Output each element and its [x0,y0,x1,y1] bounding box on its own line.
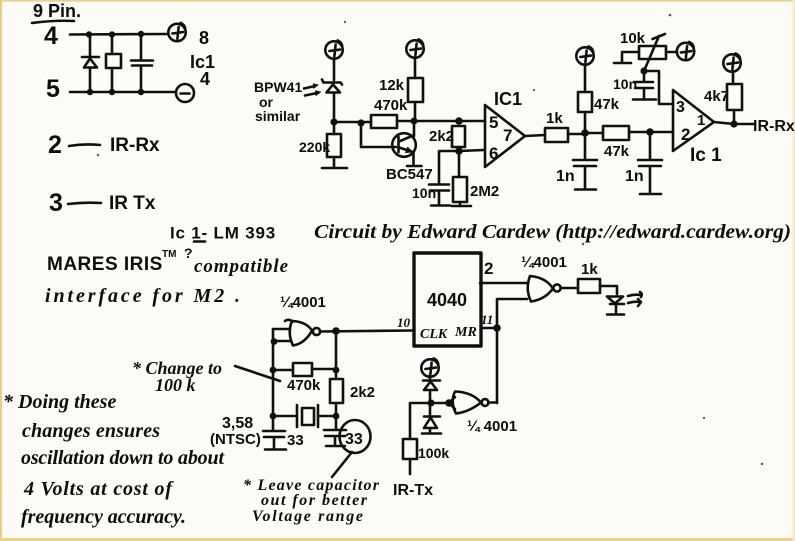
crystal X1 3.58MHz [270,405,340,427]
wire supply to photodiode [333,59,336,80]
wire output to node [714,122,734,124]
svg-text:2k2: 2k2 [429,128,454,145]
svg-text:compatible: compatible [194,256,289,277]
supply terminal plus (photodiode) [325,40,342,58]
node photodiode/220k [330,118,337,125]
svg-text:10: 10 [397,315,411,330]
supply terminal plus (Tx clamp) [421,358,438,376]
svg-text:4 Volts at cost of: 4 Volts at cost of [23,478,174,500]
wire Tx node left/down [410,403,431,439]
svg-text:oscillation down to about: oscillation down to about [21,447,225,469]
node output [730,120,737,127]
wire pin2 to NOR [480,282,528,285]
svg-text:4: 4 [200,69,210,89]
wire node to gate inputs [431,397,455,409]
svg-text:1n: 1n [556,168,575,185]
svg-text:(NTSC): (NTSC) [210,431,261,448]
resistor 470k osc [270,363,340,394]
title 9 Pin. [32,1,81,23]
terminal minus [176,84,194,102]
wire osc inputs [271,329,291,416]
wire gate to 1k [561,287,578,290]
svg-text:2k2: 2k2 [350,384,375,401]
resistor 1k LED [578,261,617,294]
wire threshold to pin3 [644,71,673,104]
wire node to base branch [334,121,361,124]
wire node to opamp pin6 [459,150,484,151]
svg-text:IR-Tx: IR-Tx [393,482,433,499]
node threshold [640,67,647,74]
wire node to 10n [439,151,459,183]
wire node down [335,331,338,379]
svg-text:Voltage range: Voltage range [252,508,363,525]
LED D4 IR [607,297,624,315]
node base branch [357,119,364,126]
terminal plus V+ [168,23,185,41]
wire MR pin11 [481,327,497,330]
svg-text:IC1: IC1 [494,89,522,109]
svg-text:6: 6 [489,144,498,163]
wire node to opamp pin5 [414,120,485,123]
svg-text:IR-Rx: IR-Rx [753,118,795,135]
label BPW41 or similar [254,79,302,124]
wire base from node [361,123,396,147]
wire MR down to Tx gate [496,328,499,403]
svg-text:IR Tx: IR Tx [109,193,156,214]
wire pin2 stub [69,144,100,146]
svg-text:2: 2 [484,259,493,278]
svg-text:IR-Rx: IR-Rx [110,135,160,156]
svg-text:MARES IRIS: MARES IRIS [47,254,163,275]
svg-text:¼4001: ¼4001 [521,254,567,271]
svg-text:similar: similar [255,108,301,124]
wire pot left to ground stub [614,52,639,63]
supply terminal plus (47k) [576,46,593,64]
svg-text:3,58: 3,58 [222,415,253,432]
svg-text:33: 33 [287,432,304,449]
svg-text:470k: 470k [287,377,321,394]
svg-text:100k: 100k [418,445,449,461]
resistor 220k [299,122,347,168]
node 2k2 bottom [455,147,463,155]
capacitor 10n threshold [613,71,656,100]
resistor 12k [379,58,423,121]
svg-text:Ic 1- LM 393: Ic 1- LM 393 [170,224,276,243]
svg-text:47k: 47k [594,96,620,113]
resistor 2k2 osc [330,379,375,416]
node 2k2 top [455,117,463,125]
wire pin3 stub [68,203,101,204]
capacitor C0 [131,34,153,92]
svg-text:¼ 4001: ¼ 4001 [467,418,517,435]
svg-text:3: 3 [49,189,63,217]
svg-text:100 k: 100 k [155,375,196,395]
label MARES IRIS TM compatible [47,245,289,277]
label 3,58 (NTSC) [210,415,261,448]
svg-text:BC547: BC547 [386,166,433,183]
note doing these changes [3,391,225,528]
svg-text:* Doing these: * Doing these [3,391,116,413]
node after 1k [581,129,589,137]
svg-text:frequency accuracy.: frequency accuracy. [21,506,186,528]
capacitor 1n first [556,133,597,190]
node MR [493,324,501,332]
svg-text:33: 33 [345,431,363,448]
annotation circle around 33 [340,420,371,453]
svg-text:470k: 470k [374,97,408,114]
svg-text:1n: 1n [625,168,644,185]
svg-text:9 Pin.: 9 Pin. [33,1,81,21]
svg-text:5: 5 [46,75,60,103]
svg-text:¼4001: ¼4001 [280,294,326,311]
svg-text:4: 4 [44,22,58,50]
svg-text:out for better: out for better [261,492,368,509]
svg-text:2M2: 2M2 [470,183,499,200]
svg-text:MR: MR [454,325,477,340]
paper specks [97,14,763,465]
capacitor 33 right [324,416,363,448]
svg-text:1k: 1k [581,261,598,278]
node osc output [332,327,340,335]
resistor 47k series [585,126,673,160]
note change to 100k [132,358,280,395]
svg-text:CLK: CLK [420,327,449,342]
wire collector to node [413,121,416,136]
capacitor 10n [412,185,450,206]
svg-text:2: 2 [48,131,62,159]
light arrows [304,83,322,96]
NOR gate U2a oscillator [285,320,320,346]
capacitor 33 left [263,416,304,450]
svg-text:changes ensures: changes ensures [22,420,160,442]
svg-text:1: 1 [697,112,705,129]
capacitor 1n second [625,132,662,194]
wire pin4 rail [70,33,168,36]
potentiometer 10k [620,30,666,71]
IC 4040 counter [414,253,481,346]
svg-text:220k: 220k [299,139,330,155]
wire opamp output [525,135,545,136]
svg-text:4k7: 4k7 [704,88,729,105]
svg-text:3: 3 [676,99,685,116]
resistor 2k2 [429,126,465,151]
op-amp U1a IC1 [485,89,525,167]
svg-text:Ic 1: Ic 1 [690,145,722,166]
wire pin5 rail [70,91,176,94]
label Ic 1- LM 393 [170,224,276,243]
resistor 470k (feedback) [361,97,414,128]
annotation leader to note [332,452,352,477]
svg-text:2: 2 [681,125,690,144]
supply terminal plus (4k7) [723,53,740,71]
op-amp U1b IC1 [673,90,722,166]
svg-text:47k: 47k [604,143,630,160]
wire osc output to CLK [320,331,414,332]
svg-text:8: 8 [199,28,209,48]
diode D6 clamp low [422,403,441,434]
resistor 47k pullup [578,65,620,133]
svg-text:5: 5 [489,113,498,132]
junction dots pin5 rail [87,89,93,95]
supply terminal plus (12k) [406,39,423,57]
svg-text:11: 11 [481,312,493,327]
wire to IR-Rx [734,123,754,126]
diode D5 clamp high [423,375,440,403]
svg-text:7: 7 [503,126,512,145]
component box (fuse) [106,35,121,93]
supply terminal plus (pot) [666,51,677,54]
resistor 2M2 [452,151,499,206]
resistor 1k [545,110,585,142]
NOR gate U2b output [528,276,561,302]
NOR gate U2c Tx [453,392,497,414]
svg-text:1k: 1k [546,110,563,127]
svg-text:12k: 12k [379,77,405,94]
diode D1 (protection) [82,35,99,93]
svg-text:?: ? [184,245,193,261]
note leave capacitor out [243,477,380,525]
junction dots pin4 rail [86,31,92,37]
svg-text:TM: TM [162,249,176,260]
resistor 100k [403,439,449,474]
svg-text:Circuit by Edward Cardew (http: Circuit by Edward Cardew (http://edward.… [314,221,791,243]
resistor 4k7 [704,72,742,124]
photodiode D2 BPW41 [322,80,342,123]
node collector [411,118,418,125]
node after 47k [646,128,654,136]
svg-text:4040: 4040 [427,290,467,310]
LED emission arrows [628,292,642,306]
svg-text:10n: 10n [613,76,637,92]
transistor Q1 BC547 [386,133,433,183]
svg-text:10k: 10k [620,30,646,47]
svg-text:10n: 10n [412,185,436,201]
svg-text:BPW41: BPW41 [254,79,302,95]
node Tx input [427,399,434,406]
wire MR to NOR input [497,299,527,328]
